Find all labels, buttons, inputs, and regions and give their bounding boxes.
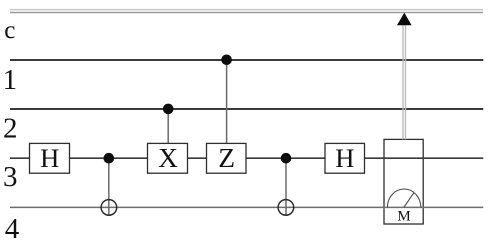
meter dial arc inside measurement box — [387, 189, 420, 207]
arrowhead to classical rail — [397, 13, 412, 26]
svg-text:H: H — [40, 143, 59, 173]
classical wire up from measurement (double vertical) — [403, 25, 406, 140]
wire: CNOT-1 vertical connector — [108, 158, 110, 215]
wire 4 — [10, 206, 483, 208]
svg-text:M: M — [397, 208, 410, 224]
svg-text:4: 4 — [5, 213, 20, 240]
control dot on wire 3 (CNOT-1) — [104, 153, 115, 164]
gate H1 on wire 3 — [30, 143, 70, 173]
wire: CNOT-2 vertical connector — [285, 158, 287, 215]
wire 3 — [10, 157, 483, 159]
svg-text:3: 3 — [3, 161, 18, 193]
svg-text:c: c — [4, 17, 15, 44]
classical rail c (double line) — [10, 10, 483, 13]
svg-text:2: 2 — [3, 113, 18, 145]
CNOT-2 target (XOR) on wire 4 — [278, 200, 294, 216]
wire: controlled-Z vertical connector — [226, 60, 228, 144]
control dot on wire 3 (CNOT-2) — [281, 153, 292, 164]
wire 1 — [10, 59, 483, 61]
wire: controlled-X vertical connector — [167, 109, 169, 143]
svg-text:Z: Z — [218, 142, 235, 173]
svg-text:1: 1 — [3, 64, 18, 96]
measurement box M (frame) — [384, 139, 423, 224]
gate X on wire 3 — [148, 142, 188, 173]
gate H2 on wire 3 — [325, 143, 365, 173]
svg-text:X: X — [158, 142, 178, 173]
svg-text:H: H — [335, 143, 354, 173]
CNOT-1 target (XOR) on wire 4 — [101, 200, 117, 216]
control dot on wire 2 — [163, 104, 174, 115]
control dot on wire 1 — [221, 55, 232, 66]
wire 2 — [10, 108, 483, 110]
gate Z on wire 3 — [207, 142, 247, 173]
meter needle — [404, 193, 414, 208]
